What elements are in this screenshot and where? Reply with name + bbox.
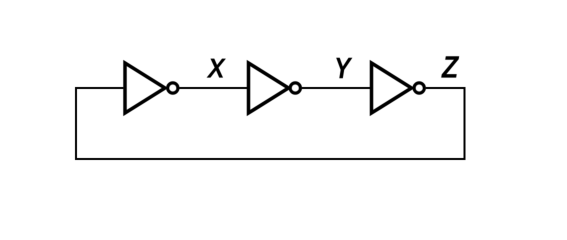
node X label [207,59,226,78]
inverter 1 (NOT gate triangle) [125,63,165,113]
inverter 2 output bubble [290,83,300,93]
wire: node Y (inverter 2 out to inverter 3 in) [302,87,370,89]
wire: input to inverter 1 (left feedback top segment) [75,87,123,89]
inverter 2 (NOT gate triangle) [249,63,289,113]
wire: feedback right vertical [464,87,466,160]
inverter 3 output bubble [414,83,424,93]
wire: node Z (inverter 3 out to feedback corner) [426,87,466,89]
inverter 1 output bubble [168,83,178,93]
wire: feedback left vertical [75,87,77,159]
node Z label [441,56,459,77]
inverter 3 (NOT gate triangle) [372,63,412,113]
wire: feedback bottom horizontal [75,158,466,160]
wire: node X (inverter 1 out to inverter 2 in) [179,87,247,89]
node Y label [336,58,352,78]
